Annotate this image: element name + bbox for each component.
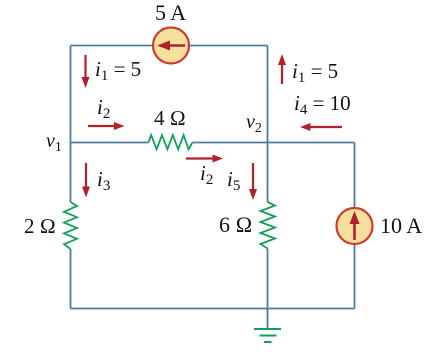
wire: middle vertical from v2 down to 6-ohm [267,143,269,203]
svg-text:2 Ω: 2 Ω [24,214,56,238]
wire: top horizontal [71,45,268,47]
svg-text:5 A: 5 A [155,0,186,25]
svg-text:10 A: 10 A [380,213,422,238]
svg-text:i2: i2 [200,161,213,188]
current source 5A (top, arrow pointing left) [153,28,189,64]
current arrow i2 (top, pointing right) [88,122,125,130]
wire: middle vertical from top wire down to node v2 [267,46,269,143]
wire: right vertical lower (10A source to bottom) [354,244,356,309]
current source 10A (right, arrow pointing up) [337,208,373,244]
resistor 2-ohm (vertical zigzag) [64,202,77,249]
current arrow i1 (left branch, pointing down) [82,55,90,88]
wire: bottom horizontal [71,308,355,310]
resistor 4-ohm (horizontal zigzag) [149,135,193,149]
wire: right vertical upper (to 10A source) [354,143,356,209]
wire: middle horizontal left segment (v1 to 4-ohm) [71,142,149,144]
svg-text:i2: i2 [97,95,110,122]
svg-text:6 Ω: 6 Ω [219,212,252,237]
current arrow i4 (pointing left) [300,123,342,131]
ground [254,329,281,342]
resistor 6-ohm (vertical zigzag) [261,202,276,249]
current arrow i5 (pointing down) [249,163,257,200]
current arrow i3 (pointing down) [82,163,90,198]
svg-text:i3: i3 [97,167,110,194]
svg-text:v2: v2 [246,111,262,136]
current arrow i2 (middle, pointing right) [186,155,223,163]
svg-text:i4 = 10: i4 = 10 [294,91,351,118]
wire: ground stub below bottom wire [267,309,269,330]
svg-text:i5: i5 [227,167,240,194]
svg-text:v1: v1 [46,130,62,155]
wire: middle horizontal right segment (4-ohm to right corner) [192,142,354,144]
svg-text:i1 = 5: i1 = 5 [292,59,338,86]
svg-text:4 Ω: 4 Ω [154,106,186,130]
wire: left vertical upper (v1 branch top) [70,46,72,203]
svg-text:i1 = 5: i1 = 5 [95,57,141,84]
wire: left vertical lower (below 2-ohm) [70,249,72,309]
wire: middle vertical below 6-ohm to bottom wire [267,249,269,309]
current arrow i1 (right branch, pointing up) [278,54,286,84]
